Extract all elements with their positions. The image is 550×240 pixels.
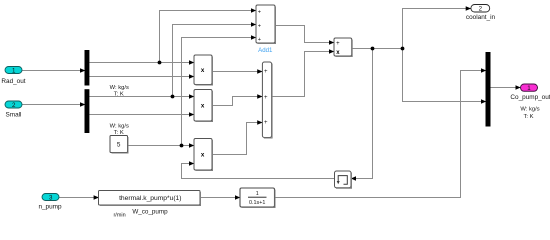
svg-text:T: K: T: K	[114, 92, 124, 98]
wire branch to Mux in2	[403, 49, 487, 102]
inport 2 Small	[5, 101, 22, 119]
transfer fcn 1/(0.1s+1)	[240, 188, 275, 208]
wire branch to coolant_in	[403, 9, 471, 49]
svg-text:W: kg/s: W: kg/s	[110, 124, 129, 130]
svg-text:Small: Small	[6, 112, 22, 119]
svg-text:r/min: r/min	[113, 213, 125, 219]
svg-text:coolant_in: coolant_in	[466, 14, 496, 21]
svg-text:+: +	[264, 120, 268, 126]
inport 1 Rad_out	[1, 67, 25, 85]
signal label W: kg/s T: K (upper)	[110, 85, 129, 98]
svg-text:W: kg/s: W: kg/s	[520, 106, 539, 112]
wire Mux out to Co_pump_out	[490, 87, 521, 89]
svg-text:+: +	[336, 41, 340, 47]
wire Sum out	[352, 48, 403, 50]
svg-text:x: x	[201, 67, 205, 74]
svg-text:Add1: Add1	[258, 47, 273, 54]
wire Add out to Sum in2	[272, 52, 334, 97]
wire Rad_out to Demux1	[22, 70, 85, 72]
wire Demux2 out1 to Product2 in1	[89, 96, 194, 98]
adder Add (tall)	[262, 62, 272, 138]
svg-text:+: +	[258, 10, 261, 16]
wire Add1 out to Sum in1	[275, 26, 334, 43]
svg-text:+: +	[264, 95, 268, 101]
svg-text:thermal.k_pump*u(1): thermal.k_pump*u(1)	[119, 195, 181, 202]
wire n_pump to Fcn	[59, 197, 99, 199]
wire branch to Add1 in2	[173, 25, 257, 97]
demux Demux2	[85, 89, 90, 133]
svg-text:W_co_pump: W_co_pump	[132, 208, 168, 215]
memory block (flipped)	[335, 171, 352, 188]
wire Product2 out to Add in2	[212, 97, 262, 106]
product Product1	[194, 55, 213, 85]
wire Memory out to Product3 in2	[182, 164, 335, 179]
signal label W: kg/s T: K (lower)	[110, 124, 129, 136]
svg-text:Co_pump_out: Co_pump_out	[510, 94, 550, 101]
outport 1 Co_pump_out	[510, 84, 550, 120]
wire Transfer Fcn out to Mux in1	[275, 71, 487, 198]
svg-text:+: +	[258, 23, 261, 29]
svg-text:1: 1	[12, 67, 16, 74]
svg-text:x: x	[201, 151, 205, 158]
product Product3	[194, 139, 213, 171]
svg-text:1: 1	[527, 85, 531, 92]
mux (right)	[486, 52, 491, 127]
wire branch to Add1 in1	[160, 11, 257, 63]
junction on Demux2 out1	[171, 95, 175, 99]
svg-text:x: x	[201, 103, 205, 110]
svg-text:+: +	[264, 69, 268, 75]
svg-text:2: 2	[479, 6, 483, 13]
fcn thermal.k_pump*u(1)	[99, 191, 201, 219]
wire Demux2 out2 to Product2 in2	[89, 114, 194, 116]
wire Demux1 out1 to Product1 in1	[89, 62, 194, 64]
outport 2 coolant_in	[466, 5, 496, 22]
svg-text:2: 2	[12, 102, 16, 109]
constant 5	[110, 136, 128, 154]
demux Demux1	[85, 50, 90, 86]
junction Sum out 1	[371, 47, 375, 51]
junction on Constant5 line	[180, 144, 184, 148]
svg-text:0.1s+1: 0.1s+1	[249, 200, 265, 206]
wire Product1 out to Add in1	[212, 71, 262, 73]
svg-text:+: +	[258, 37, 261, 43]
junction on Demux1 out1	[158, 61, 162, 65]
inport 3 n_pump	[38, 194, 62, 211]
adder Add1	[256, 5, 276, 54]
wire branch to Memory in	[351, 49, 373, 179]
svg-text:W: kg/s: W: kg/s	[110, 85, 129, 91]
svg-text:5: 5	[117, 142, 121, 149]
sum-product block (+ x)	[334, 38, 352, 57]
svg-text:Rad_out: Rad_out	[1, 78, 25, 85]
svg-text:3: 3	[49, 194, 53, 201]
junction Sum out 2	[401, 47, 405, 51]
wire branch to Add1 in3	[182, 38, 257, 146]
product Product2	[194, 90, 213, 122]
wire Constant5 to Product3 in1	[128, 145, 195, 147]
wire Fcn out to Transfer Fcn	[200, 197, 240, 199]
wire Small to Demux2	[22, 104, 85, 106]
svg-text:1: 1	[256, 191, 259, 197]
svg-text:n_pump: n_pump	[38, 204, 62, 211]
wire Product3 out to Add in3	[212, 123, 262, 155]
wire Demux1 out2 to Product1 in2	[89, 76, 194, 78]
svg-text:T: K: T: K	[524, 114, 534, 120]
